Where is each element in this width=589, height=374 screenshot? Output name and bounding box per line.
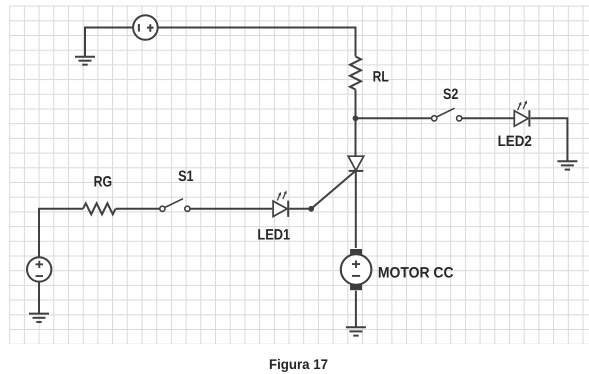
voltage source (left)	[27, 257, 51, 281]
ground	[29, 314, 49, 322]
wire	[355, 291, 357, 328]
wire	[311, 171, 356, 209]
resistor RL	[350, 57, 389, 90]
wire	[116, 208, 160, 210]
voltage source (top)	[133, 15, 158, 40]
wire	[190, 208, 272, 210]
switch S1	[160, 168, 194, 211]
switch S2	[432, 86, 462, 121]
svg-text:LED2: LED2	[498, 133, 532, 150]
svg-text:S1: S1	[178, 168, 194, 185]
wire	[38, 282, 40, 314]
wire	[462, 117, 514, 119]
wire	[356, 117, 432, 119]
node	[308, 206, 314, 212]
ground	[75, 57, 95, 65]
wire	[355, 90, 357, 119]
wire	[158, 28, 356, 57]
svg-text:S2: S2	[443, 86, 458, 103]
wire	[289, 208, 311, 210]
LED LED2	[498, 100, 532, 150]
svg-text:Figura 17: Figura 17	[269, 356, 328, 372]
wire	[39, 209, 83, 257]
svg-text:MOTOR CC: MOTOR CC	[378, 264, 454, 281]
resistor RG	[83, 173, 116, 214]
thyristor	[348, 156, 364, 171]
node	[353, 115, 359, 121]
wire	[355, 118, 357, 156]
svg-text:RG: RG	[94, 173, 113, 190]
LED LED1	[257, 191, 290, 244]
wire	[85, 28, 133, 57]
ground	[557, 161, 577, 169]
motor MOTOR CC	[341, 249, 454, 290]
svg-text:RL: RL	[373, 68, 389, 85]
wire	[355, 171, 357, 248]
ground	[346, 327, 366, 335]
wire	[531, 118, 568, 161]
svg-text:LED1: LED1	[257, 227, 290, 244]
